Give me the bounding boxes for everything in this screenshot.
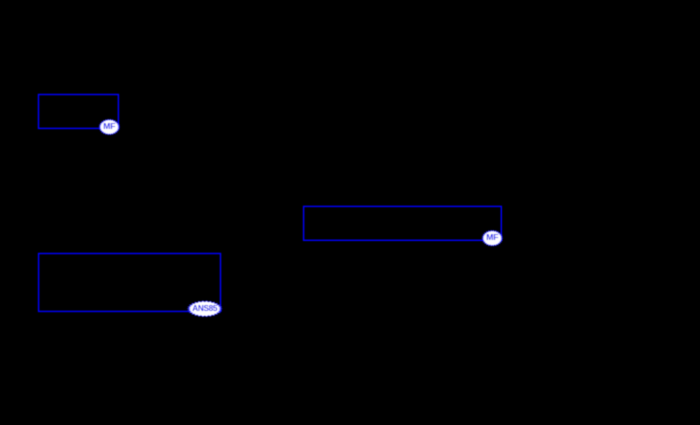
syntax box 2 bbox=[304, 206, 502, 240]
stamp MF (box 1) bbox=[99, 119, 119, 134]
syntax box 3 bbox=[39, 254, 221, 312]
stamp MF (box 2) bbox=[482, 230, 502, 246]
syntax box 1 bbox=[39, 95, 119, 129]
stamp ANS85 (box 3) bbox=[188, 301, 222, 317]
svg-text:MF: MF bbox=[103, 121, 115, 131]
svg-text:MF: MF bbox=[486, 232, 498, 242]
svg-text:ANS85: ANS85 bbox=[192, 304, 218, 313]
